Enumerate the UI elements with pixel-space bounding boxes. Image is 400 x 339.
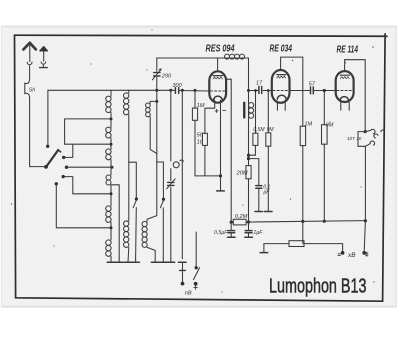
wire: grid rail y=90.3 (left part, to cap 300) <box>48 89 175 91</box>
svg-text:10: 10 <box>197 139 204 145</box>
ground <box>260 252 268 254</box>
reaction trimmer on x=170.8 <box>167 179 176 189</box>
node: 0,5M top <box>254 89 257 92</box>
ground <box>265 211 273 213</box>
capacitor 0,5uF <box>230 222 232 230</box>
svg-text:Lumophon B13: Lumophon B13 <box>269 276 367 298</box>
wire: rail down to xB plus <box>364 221 365 252</box>
node: rail right end <box>364 219 367 222</box>
svg-text:10T 10: 10T 10 <box>347 136 362 141</box>
wire: cap 57 to V3 grid <box>314 90 336 92</box>
node: L1 tap 2 <box>110 143 113 146</box>
node: battery terminal xB minus <box>341 251 345 255</box>
svg-text:1M: 1M <box>304 122 312 128</box>
wire: branch right to wave switch contact W2 <box>157 162 164 198</box>
ground <box>167 261 175 263</box>
loudspeaker LS frame <box>358 132 365 147</box>
plus mark <box>215 109 218 112</box>
V2 top lead <box>281 57 303 126</box>
coil L1 antenna coil stack (vertical, x=111) <box>106 90 111 262</box>
V3 filament legs <box>340 102 342 110</box>
svg-text:Sh: Sh <box>29 88 35 94</box>
border frame <box>15 34 388 301</box>
wire: tuning cap right line to ground <box>181 90 183 258</box>
wire: V2 plate rail continues <box>290 90 310 92</box>
wire: grid rail (cap300 to tube1) <box>180 90 210 93</box>
V2 grid hatch <box>277 75 286 78</box>
wire: contact 4 to coil L1 tap <box>63 177 111 194</box>
wire branch to wave switch contact <box>129 162 137 197</box>
node: T1 line / V2 grid coupling <box>247 89 250 92</box>
svg-text:RES 094: RES 094 <box>206 44 235 55</box>
wire: bias bus <box>195 175 221 177</box>
minus mark <box>223 110 226 112</box>
grid resistor 1M (V1) <box>194 89 197 92</box>
svg-text:300: 300 <box>172 83 182 89</box>
svg-text:RE 114: RE 114 <box>337 44 359 55</box>
transformer T1 (interstage) <box>248 58 250 103</box>
wire: loudspeaker to B+ rail <box>364 146 366 220</box>
V1 inner dashed line <box>210 90 225 92</box>
top wire y=58 with grid choke <box>157 57 249 59</box>
node: tuning cap joins grid rail <box>169 89 172 92</box>
loudspeaker terminal curl middle <box>374 134 378 138</box>
scan specks <box>11 29 375 292</box>
V1 top grid lead <box>217 58 219 71</box>
ground under L1 <box>107 261 115 263</box>
resistor 0,5M (grid leak) <box>255 91 257 134</box>
dropping resistor (horizontal) <box>289 241 304 247</box>
capacitor 1uF <box>248 222 250 230</box>
node: V3 grid junction <box>323 89 326 92</box>
wire: W1 down to ground <box>135 208 138 259</box>
svg-text:17: 17 <box>256 80 263 86</box>
V1 grid hatch <box>213 76 223 79</box>
V2 inner dashed line <box>273 90 289 92</box>
switch contact W1 (wave change) <box>135 197 138 200</box>
capacitor 300 <box>175 88 178 94</box>
svg-text:9M: 9M <box>326 122 334 128</box>
capacitor 57 <box>311 87 314 94</box>
capacitor C-tune stator line <box>170 90 172 161</box>
band switch lever <box>46 150 58 167</box>
wire: B+ rail <box>231 221 365 223</box>
node: 9M line on B+ rail <box>323 220 326 223</box>
ground <box>255 211 263 213</box>
switch contact W2 (wave change) <box>162 198 165 201</box>
loudspeaker terminal curl bottom <box>365 141 374 146</box>
node: 9M top <box>267 89 270 92</box>
coil L4 (RF coupling coil, x=150.2) <box>146 101 157 153</box>
ground <box>160 261 168 263</box>
node: right line joins grid rail <box>181 89 184 92</box>
V3 filament dome <box>340 97 349 101</box>
node: band switch contact 2 <box>62 156 65 159</box>
node: rail at 0,2M right <box>247 220 250 223</box>
svg-text:µF: µF <box>263 190 270 196</box>
node: battery terminal xB plus <box>362 251 366 255</box>
svg-text:0,5M: 0,5M <box>253 127 265 133</box>
V1 filament dome <box>214 96 223 100</box>
wire: contact 2 zigzag riser <box>64 144 73 157</box>
node: rail left (0,2M left) <box>230 221 233 224</box>
svg-text:0,5µF: 0,5µF <box>214 230 228 236</box>
capacitor 17 <box>259 86 262 93</box>
resistor 1M (V2 plate) <box>300 126 305 145</box>
node: T1 bottom junction b <box>247 157 250 160</box>
wire: antenna down to band switch pivot <box>30 97 47 167</box>
node: L1 tap 5 <box>110 226 113 229</box>
wire: cap 17 to V2 grid <box>263 90 272 92</box>
grid choke coil <box>225 54 245 59</box>
capacitor 0,1uF branch <box>249 159 259 186</box>
ground <box>228 236 236 238</box>
resistor 0,2M (in rail) <box>233 219 246 225</box>
tube V2 RE 034 <box>272 70 290 103</box>
svg-text:9M: 9M <box>267 127 275 133</box>
coil L2 (x=128.8) grid coil <box>124 90 129 221</box>
terminal nB below ground <box>182 262 184 282</box>
V2 filament legs <box>276 103 278 111</box>
ground <box>124 261 132 263</box>
wire: contact 3 to coil L1 tap <box>67 166 113 168</box>
resistor 9M (V2 grid) <box>267 91 269 133</box>
wire: to coil L1 tap at y144 <box>65 143 111 145</box>
node: band switch contact 3 <box>65 166 68 169</box>
ground <box>179 261 187 263</box>
wire: contact 1 riser to grid rail <box>47 90 49 146</box>
wire to battery + <box>304 244 343 252</box>
V3 grid hatch <box>340 75 349 78</box>
V1 anode lead to plate line <box>226 79 231 222</box>
tube V3 RE 114 <box>336 71 354 102</box>
svg-text:0,2M: 0,2M <box>235 214 248 220</box>
ground <box>245 236 253 238</box>
node: L1 tap 3 <box>111 166 114 169</box>
node: band switch contact 4 <box>62 175 65 178</box>
svg-text:57: 57 <box>309 81 316 87</box>
coil L5 (lower, x=147.1) <box>142 162 157 262</box>
ground <box>132 261 140 263</box>
svg-text:50: 50 <box>197 133 204 139</box>
V1 filament right leg down to ground <box>220 100 222 190</box>
node: band switch contact 1 <box>46 145 49 148</box>
svg-text:1M: 1M <box>197 103 205 109</box>
hook on border <box>381 130 384 132</box>
trimmer 290 on vertical x=156.8 <box>152 58 161 162</box>
ground <box>115 261 123 263</box>
V3 top lead <box>345 60 366 132</box>
resistor 9M (V3 grid) <box>323 91 325 125</box>
switch Sh (antenna jack) <box>25 80 30 96</box>
filament switch (bottom) <box>195 232 197 266</box>
node: T1 bottom junction a <box>247 154 250 157</box>
svg-text:RE 034: RE 034 <box>270 44 293 55</box>
antenna arrow A2 (earth) <box>40 47 48 68</box>
node: 1M line on B+ rail <box>301 220 304 223</box>
resistor 20M <box>246 166 251 179</box>
polarity marks at xB <box>338 253 340 255</box>
wire: W2 down to ground <box>162 208 164 259</box>
wire: coil tap to ground column <box>111 185 119 259</box>
antenna arrow A1 <box>23 43 35 80</box>
node: L1 tap 4 <box>110 192 113 195</box>
V2 filament dome <box>277 95 286 99</box>
loudspeaker terminal curl top <box>365 129 375 134</box>
svg-text:290: 290 <box>161 73 172 79</box>
wire: V2 grid coupling <box>249 90 259 92</box>
node: junction of grid rail and trimmer line <box>155 89 158 92</box>
V3 inner dashed line <box>337 90 353 92</box>
wire: riser to coil L1 tap at y119 <box>65 119 111 144</box>
svg-text:1µF: 1µF <box>253 230 263 236</box>
node: pivot <box>44 165 48 169</box>
node: L1 tap 1 <box>110 117 113 120</box>
svg-text:xB: xB <box>347 252 356 259</box>
wire: contact 5 to coil L1 tap <box>56 184 111 228</box>
V1 filament left leg + bias resistor 50/10 <box>205 100 215 133</box>
svg-text:nB: nB <box>185 291 192 297</box>
ground <box>151 261 159 263</box>
node: loudspeaker top junction <box>364 130 367 133</box>
labels <box>206 44 359 56</box>
tube V1 RES 094 <box>209 71 226 102</box>
svg-text:20M: 20M <box>236 171 248 177</box>
ground <box>217 190 225 192</box>
node: band switch contact 5 <box>55 182 58 185</box>
coil L3 (lower wave coil, in line of L2) <box>124 221 129 262</box>
rotor symbol (circle with curl) <box>173 162 179 168</box>
